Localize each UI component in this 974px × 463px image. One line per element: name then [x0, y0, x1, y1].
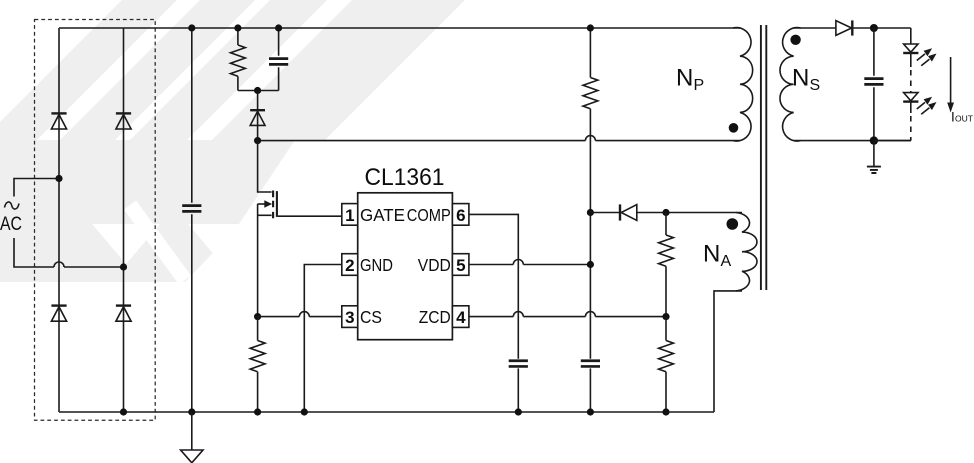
capacitor C3 (VDD) [581, 361, 600, 367]
svg-text:CS: CS [360, 307, 382, 327]
node snubber bottom [254, 87, 261, 94]
node C1 bottom on return rail [188, 408, 195, 415]
node NA phase dot [727, 218, 739, 230]
wire AC lower lead with hop over left leg [14, 238, 124, 267]
resistor R4 (ZCD divider upper) [659, 213, 674, 317]
node VDD wire junction [587, 261, 594, 268]
svg-text:N: N [703, 241, 720, 268]
diode D6 (aux rectifier, pointing left) [619, 204, 621, 220]
svg-text:S: S [810, 77, 821, 94]
pin 3 box [342, 306, 358, 328]
node GND on return rail [301, 408, 308, 415]
pin 2 box [342, 254, 358, 276]
svg-text:3: 3 [345, 308, 354, 327]
resistor R2 (current sense) [250, 317, 265, 412]
resistor R5 (ZCD divider lower) [659, 317, 674, 412]
svg-text:1: 1 [345, 206, 354, 225]
node AC lower tap [120, 263, 127, 270]
wire top rail (rectified + to primary) [59, 27, 740, 29]
wire CS to pin 3 with hop over GND wire [258, 312, 342, 317]
node AC upper tap [55, 175, 62, 182]
diode D3 (bridge lower-left) [51, 304, 66, 306]
LED1 [904, 44, 918, 52]
diode D4 (bridge lower-right) [116, 304, 131, 306]
wire drain rail (snubber node to primary bottom) with hop over startup line [258, 136, 740, 141]
svg-text:OUT: OUT [955, 114, 973, 124]
diode D7 (output rectifier, pointing right) [836, 21, 852, 36]
diode D2 (bridge upper-right) [116, 112, 131, 114]
pin 4 box [452, 306, 469, 328]
node ZCD junction [662, 313, 669, 320]
wire GND pin 2 down [304, 265, 342, 413]
transformer aux winding NA [736, 213, 757, 291]
resistor R3 (startup, HV rail to VDD node) [583, 28, 598, 359]
node CS / source junction [254, 313, 261, 320]
wire ZCD net with hops [469, 312, 666, 317]
svg-text:GND: GND [360, 255, 393, 275]
wire NS top to output diode [794, 27, 836, 29]
node C4 bottom [515, 408, 522, 415]
capacitor C5 (output) [873, 28, 875, 141]
diode D5 (snubber clamp) [257, 91, 259, 141]
node C3 bottom [587, 408, 594, 415]
node divider top [662, 209, 669, 216]
LED2 emission arrows [917, 102, 925, 109]
node NP phase dot [729, 123, 739, 133]
svg-text:N: N [792, 65, 809, 92]
node C2 top [275, 24, 282, 31]
svg-text:2: 2 [345, 256, 354, 275]
wire COMP net (pin 6 right then down) [469, 214, 518, 358]
node C1 top on rail [188, 24, 195, 31]
svg-text:ZCD: ZCD [419, 307, 451, 327]
resistor R1 (snubber) [230, 28, 245, 91]
svg-text:VDD: VDD [418, 255, 451, 275]
node R3 top on rail [587, 24, 594, 31]
svg-text:4: 4 [456, 308, 466, 327]
IOUT current arrow [950, 57, 952, 103]
LED1 emission arrows [917, 54, 925, 61]
node aux diode / VDD column [587, 209, 594, 216]
svg-text:N: N [676, 65, 693, 92]
capacitor C1 (bulk, after bridge) [191, 28, 193, 412]
wire bridge right leg [123, 28, 125, 412]
svg-text:GATE: GATE [360, 205, 405, 225]
wire snubber bottom bar [238, 90, 279, 92]
node R2 bottom [254, 408, 261, 415]
AC source symbol (sine) [5, 202, 20, 209]
transformer primary winding NP [733, 28, 753, 141]
ground (secondary, 3-bar) [873, 141, 875, 166]
node output + [870, 24, 878, 32]
transistor Q1 (power MOSFET) [258, 141, 277, 317]
node R1 top [234, 24, 241, 31]
wire aux winding return [714, 291, 742, 412]
svg-text:6: 6 [456, 206, 465, 225]
svg-text:5: 5 [456, 256, 465, 275]
wire output bottom [794, 140, 911, 142]
bridge rectifier dashed box [35, 20, 156, 421]
svg-text:CL1361: CL1361 [365, 164, 445, 191]
svg-text:AC: AC [0, 214, 22, 235]
node drain rail / D5 [254, 137, 261, 144]
pin 6 box [452, 204, 469, 226]
wire VDD net with hop over COMP line [469, 260, 591, 265]
ground (primary-side) [191, 412, 193, 450]
wire gate to pin 1 [278, 215, 342, 217]
wire LED string top [910, 28, 912, 44]
wire AC upper lead [14, 179, 59, 197]
svg-text:A: A [721, 253, 732, 270]
wire bottom return rail [59, 411, 714, 413]
wire bridge left leg [58, 28, 60, 412]
capacitor C2 (snubber) [278, 28, 280, 91]
op-amp U1 CL1361 controller body [358, 193, 453, 340]
svg-text:COMP: COMP [407, 205, 451, 225]
node bridge bottom-right on rail [120, 408, 127, 415]
node NS phase dot [790, 35, 800, 45]
pin 5 box [452, 254, 469, 276]
svg-text:P: P [694, 77, 705, 94]
pin 1 box [342, 204, 358, 226]
diode D1 (bridge upper-left) [51, 112, 66, 114]
node R5 bottom [662, 408, 669, 415]
wire aux top row [590, 212, 742, 214]
transformer secondary winding NS [780, 28, 801, 141]
transformer core [761, 25, 766, 290]
node output - [870, 136, 878, 144]
LED2 [904, 93, 918, 101]
capacitor C4 (COMP) [509, 361, 528, 367]
